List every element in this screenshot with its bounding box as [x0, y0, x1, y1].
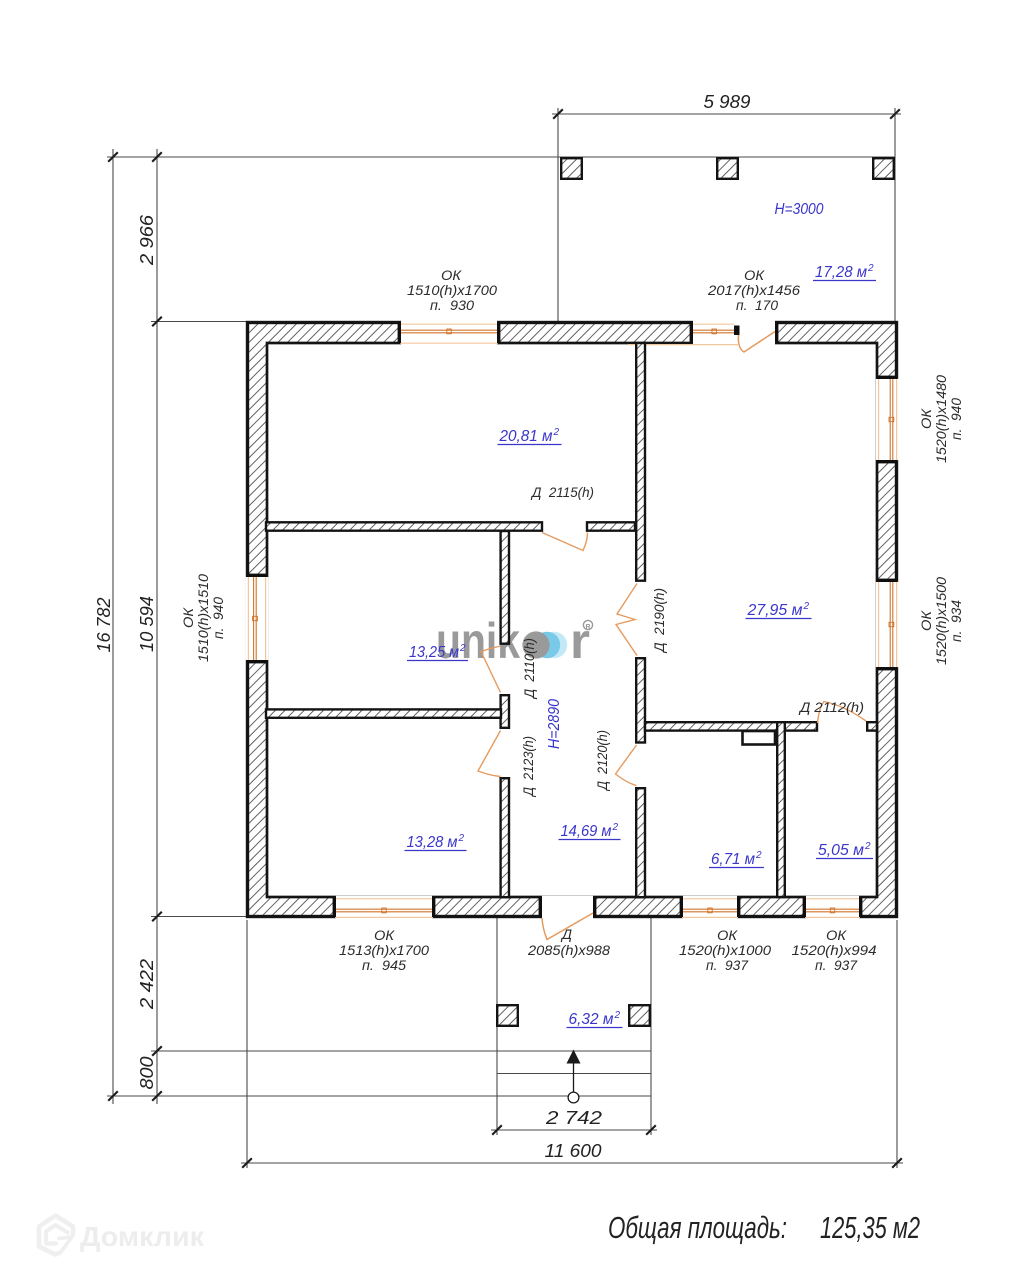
wall V2 lower segment: [636, 788, 645, 897]
extension line at y=321: [151, 321, 247, 323]
svg-text:п. 930: п. 930: [430, 298, 475, 313]
entrance door Д 2085(h)x988 opening (bottom wall): [542, 896, 593, 919]
svg-text:п. 940: п. 940: [949, 398, 964, 440]
svg-text:1520(h)x1000: 1520(h)x1000: [679, 943, 772, 958]
svg-text:Д 2120(h): Д 2120(h): [595, 730, 610, 792]
svg-text:п. 934: п. 934: [949, 600, 964, 642]
svg-text:13,25 м: 13,25 м: [409, 644, 459, 661]
porch step line 1: [151, 1050, 651, 1052]
window OK 1520(h)x1480 (right wall): [876, 379, 899, 460]
svg-text:R: R: [585, 624, 590, 631]
svg-text:6,32 м: 6,32 м: [569, 1011, 614, 1028]
svg-text:2 966: 2 966: [137, 214, 157, 266]
svg-text:Д: Д: [560, 927, 573, 942]
wall H1 right segment: [587, 522, 635, 530]
wall H3 (room 27.95 / rooms 6.71 and 5.05): [645, 722, 817, 730]
extension line at y=917: [151, 916, 247, 918]
svg-text:800: 800: [137, 1057, 157, 1090]
svg-text:2017(h)x1456: 2017(h)x1456: [707, 283, 801, 298]
wall V1 lower segment (hall/room 13.28): [501, 778, 509, 897]
svg-text:1520(h)x1480: 1520(h)x1480: [934, 374, 949, 463]
wall H1 left segment (between room 20.81 and room 13.25): [266, 522, 542, 530]
svg-text:ОК: ОК: [441, 268, 462, 283]
svg-text:2: 2: [553, 427, 560, 438]
svg-text:2: 2: [612, 822, 619, 833]
svg-text:2: 2: [803, 601, 810, 612]
window OK 1510(h)x1700 (top wall): [401, 320, 497, 344]
entrance door leaf: [542, 913, 593, 940]
porch column left: [497, 1005, 518, 1026]
dimension line chain (left inner): [156, 149, 158, 1104]
entrance arrow: [573, 1062, 575, 1093]
svg-text:ОК: ОК: [744, 268, 765, 283]
svg-text:ОК: ОК: [717, 928, 738, 943]
svg-text:125,35 м2: 125,35 м2: [820, 1210, 920, 1245]
window OK 1510(h)x1510 (left wall): [246, 577, 269, 660]
svg-text:2085(h)x988: 2085(h)x988: [527, 943, 611, 958]
terrace column 2: [717, 158, 738, 179]
svg-text:Д 2110(h): Д 2110(h): [522, 638, 537, 700]
svg-text:2: 2: [867, 263, 874, 274]
svg-text:r: r: [570, 613, 590, 669]
svg-text:1510(h)x1700: 1510(h)x1700: [407, 283, 498, 298]
door Д 2120(h) leaf: [616, 745, 637, 786]
svg-text:ОК: ОК: [919, 610, 934, 631]
wall H2 (between rooms 13.25 and 13.28): [266, 709, 501, 717]
wall V1 upper segment (hall/room 13.25): [501, 531, 509, 644]
door Д 2115(h) leaf: [542, 533, 588, 551]
terrace left edge line / extension of 5989: [557, 108, 559, 322]
terrace door leaf arc: [738, 332, 775, 353]
porch left edge: [496, 917, 498, 1135]
svg-text:20,81 м: 20,81 м: [499, 428, 553, 445]
svg-text:5 989: 5 989: [704, 92, 751, 112]
door Д 2123(h) leaf: [478, 731, 501, 777]
terrace right edge line: [894, 108, 896, 322]
porch step line 3 / extension 16782 bottom: [107, 1095, 651, 1097]
wall V3 (room 6.71 / room 5.05): [777, 722, 785, 897]
svg-text:6,71 м: 6,71 м: [711, 851, 755, 868]
svg-text:п. 937: п. 937: [815, 958, 857, 973]
svg-text:ОК: ОК: [374, 928, 395, 943]
svg-text:ОК: ОК: [181, 607, 196, 628]
svg-text:2: 2: [755, 850, 762, 861]
terrace top edge line: [107, 156, 895, 158]
svg-text:2: 2: [458, 833, 465, 844]
svg-text:1513(h)x1700: 1513(h)x1700: [339, 943, 430, 958]
window OK 1520(h)x994 (bottom wall): [806, 896, 859, 919]
wall V2 upper segment (room 20.81 / room 27.95): [636, 343, 645, 581]
svg-text:H=3000: H=3000: [775, 201, 824, 218]
svg-text:27,95 м: 27,95 м: [747, 602, 803, 619]
svg-text:п. 945: п. 945: [362, 958, 407, 973]
wall H3 right stub (door jamb): [867, 722, 877, 730]
svg-text:2: 2: [459, 643, 466, 654]
door Д 2112(h) leaf: [818, 702, 867, 724]
svg-text:ОК: ОК: [826, 928, 847, 943]
svg-text:5,05 м: 5,05 м: [818, 842, 864, 859]
tick marks on dimensions: [108, 152, 118, 162]
svg-text:ОК: ОК: [919, 408, 934, 429]
bottom dimension line 11600: [241, 1162, 903, 1164]
duct notch box below wall H3: [743, 731, 776, 745]
svg-text:1520(h)x1500: 1520(h)x1500: [934, 576, 949, 665]
svg-text:1520(h)x994: 1520(h)x994: [792, 943, 877, 958]
door jamb block in combo window: [734, 326, 740, 336]
svg-text:Д 2112(h): Д 2112(h): [798, 700, 864, 715]
svg-text:16 782: 16 782: [94, 598, 114, 653]
window OK 1513(h)x1700 (bottom wall): [336, 896, 432, 919]
svg-text:2 422: 2 422: [137, 959, 157, 1010]
bottom dimension line 2742: [491, 1129, 657, 1131]
top dimension line 5989: [552, 113, 901, 115]
window OK 1520(h)x1000 (bottom wall): [683, 896, 737, 919]
extension line x=247 below building: [246, 920, 248, 1168]
svg-text:Общая площадь:: Общая площадь:: [608, 1210, 787, 1245]
dimension line 16782 (left outer): [112, 149, 114, 1104]
terrace column 3: [873, 158, 894, 179]
svg-text:Д 2190(h): Д 2190(h): [652, 588, 667, 654]
door Д 2110(h) leaf: [481, 646, 501, 693]
window OK 2017(h)x1456 with terrace door (top wall): [693, 320, 775, 344]
exterior wall band (hatched): [247, 322, 897, 917]
extension line x=897 below building: [896, 920, 898, 1168]
door Д 2190(h) double leaf: [616, 584, 637, 656]
watermark unikor logo: [436, 613, 593, 669]
window OK 1520(h)x1500 (right wall): [876, 582, 899, 667]
porch column right: [629, 1005, 650, 1026]
svg-text:Д 2123(h): Д 2123(h): [521, 736, 536, 798]
wall V2 middle segment: [636, 658, 645, 742]
svg-text:H=2890: H=2890: [546, 699, 563, 749]
svg-text:п. 170: п. 170: [736, 298, 778, 313]
svg-text:14,69 м: 14,69 м: [561, 823, 612, 840]
porch step line 2: [497, 1073, 651, 1075]
svg-text:17,28 м: 17,28 м: [815, 264, 867, 281]
svg-text:13,28 м: 13,28 м: [407, 834, 458, 851]
svg-text:Домклик: Домклик: [80, 1221, 205, 1252]
svg-text:10 594: 10 594: [137, 596, 157, 652]
terrace column 1: [561, 158, 582, 179]
watermark Domklik logo: [39, 1216, 73, 1255]
svg-text:1510(h)x1510: 1510(h)x1510: [196, 573, 211, 662]
porch right edge: [650, 917, 652, 1135]
wall V1 middle stub: [501, 695, 509, 728]
svg-text:Д 2115(h): Д 2115(h): [530, 485, 594, 500]
svg-text:2: 2: [864, 841, 871, 852]
svg-text:2 742: 2 742: [545, 1108, 602, 1128]
svg-text:11 600: 11 600: [545, 1141, 602, 1161]
svg-text:п. 937: п. 937: [706, 958, 748, 973]
svg-text:п. 940: п. 940: [211, 597, 226, 639]
svg-text:2: 2: [614, 1010, 621, 1021]
